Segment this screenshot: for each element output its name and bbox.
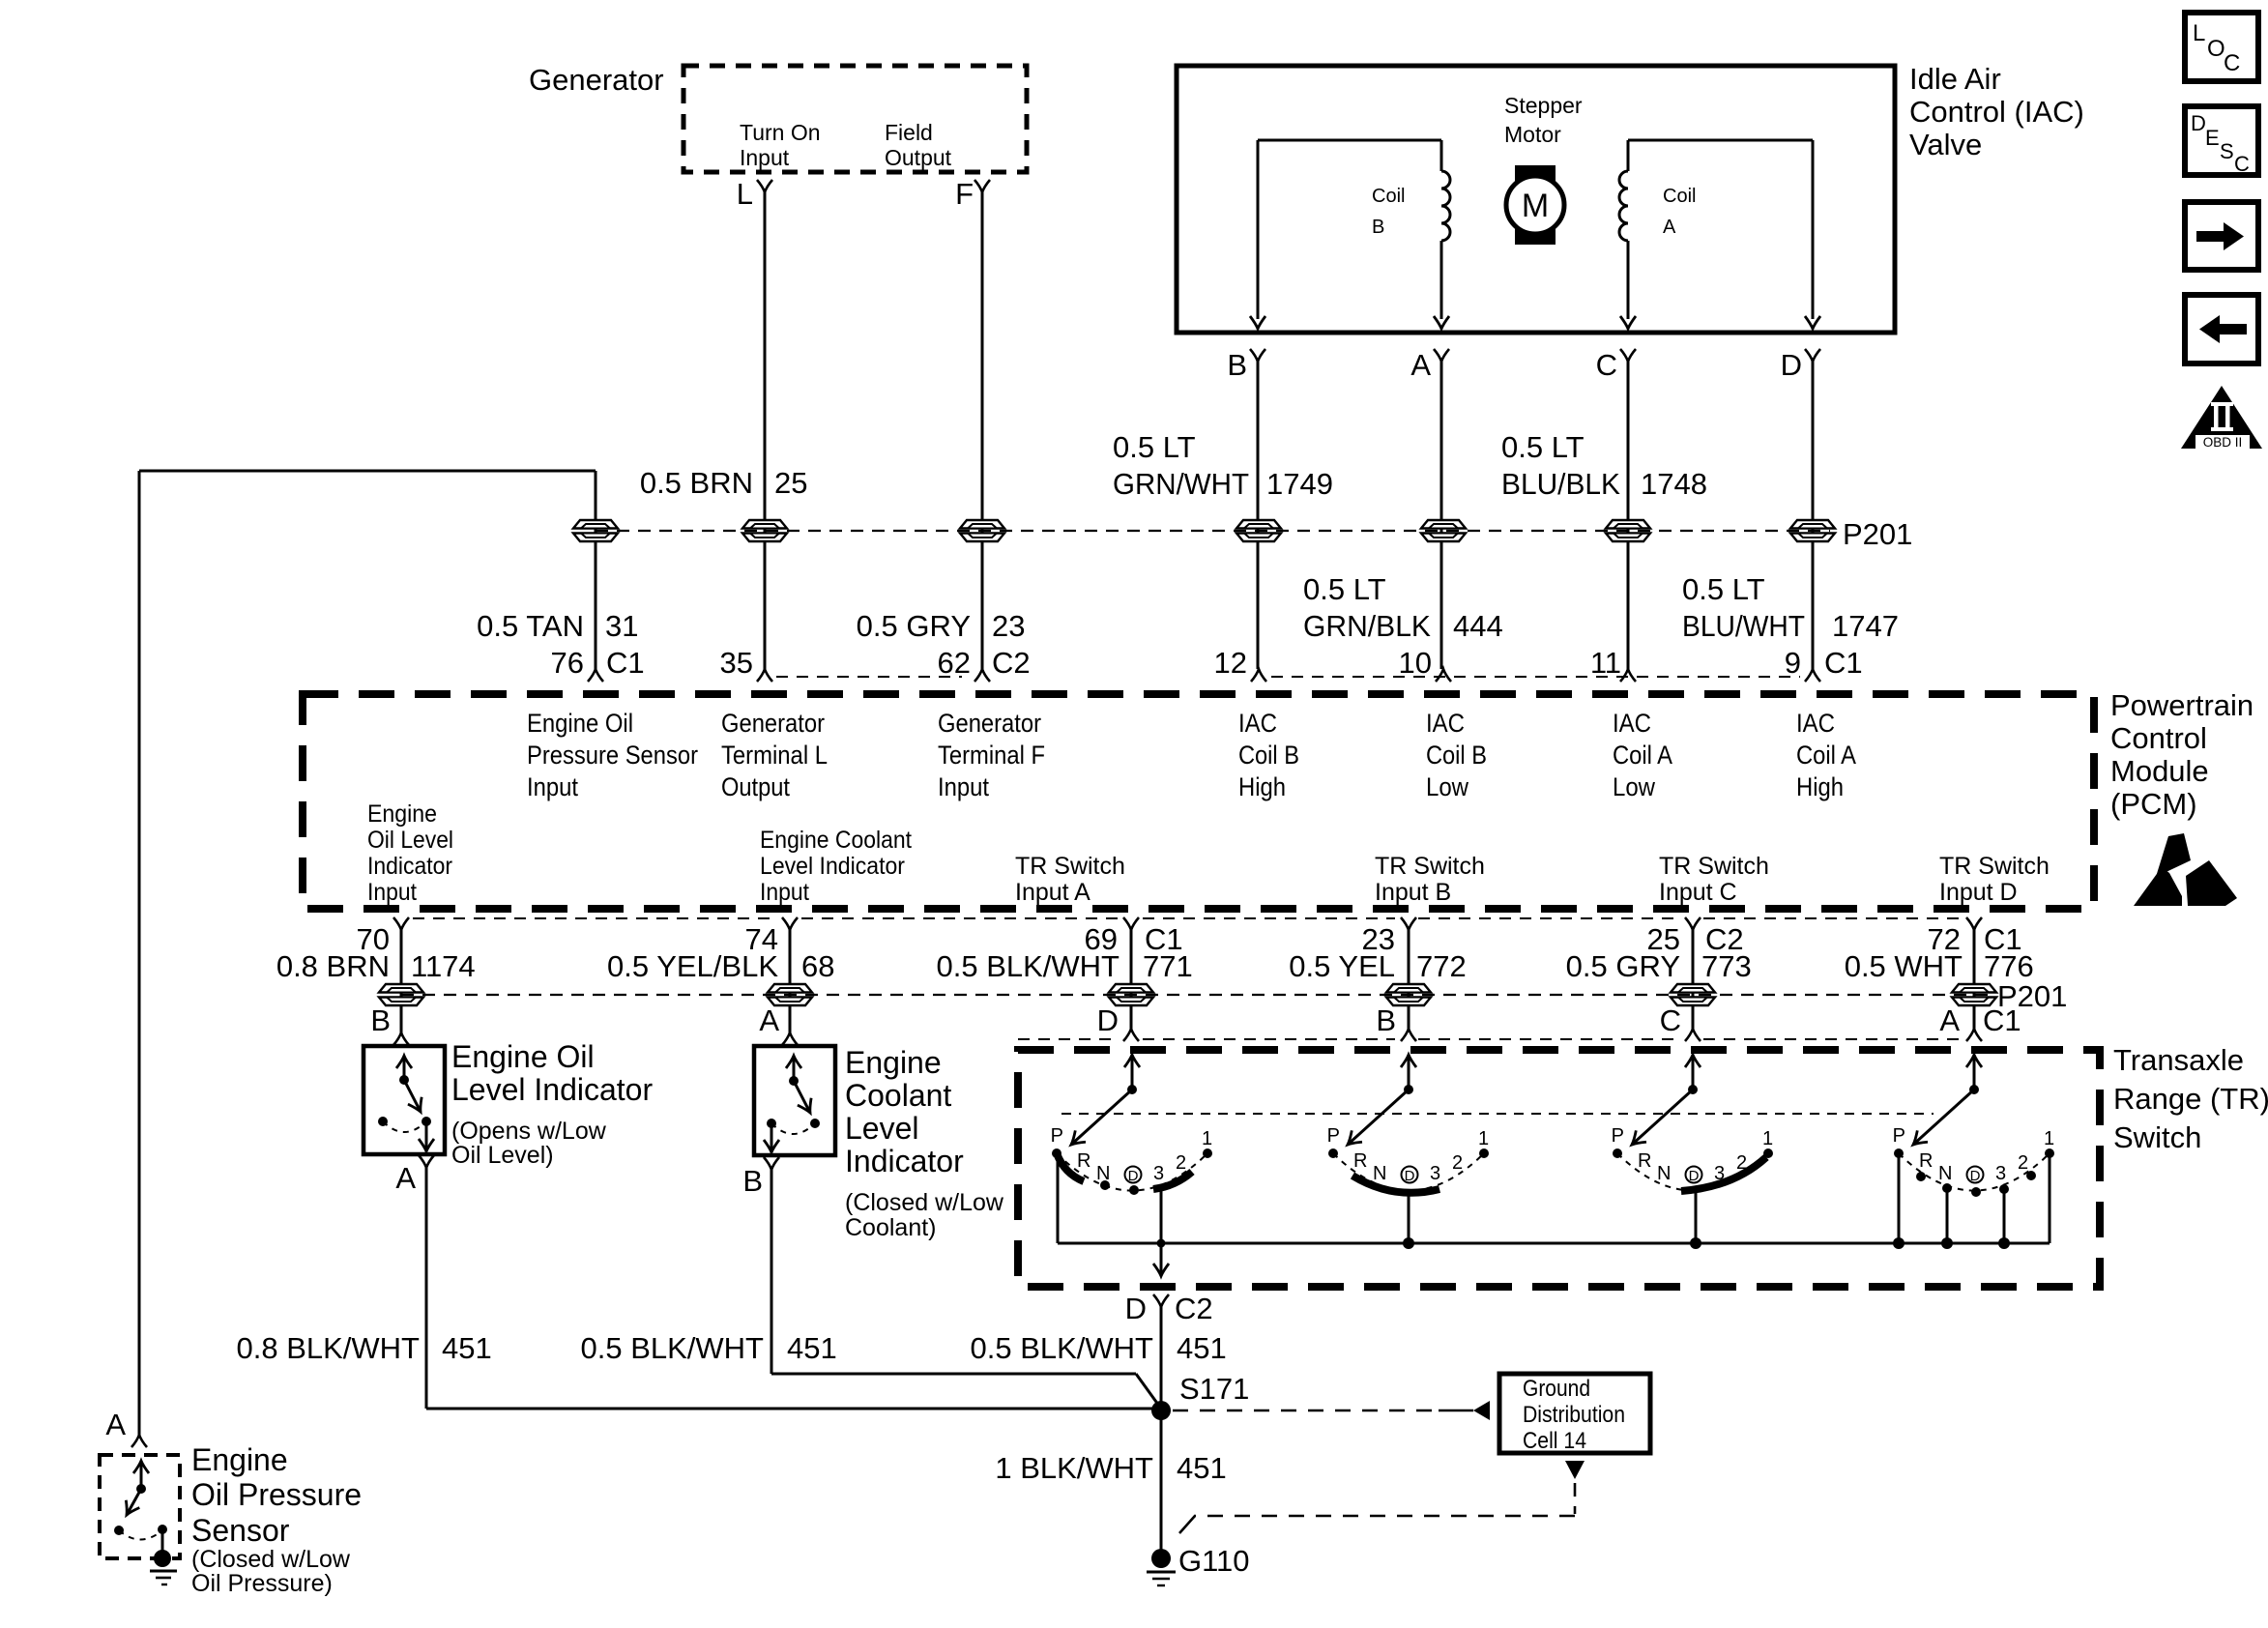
svg-text:2: 2 <box>1176 1152 1186 1174</box>
svg-text:(Closed w/Low: (Closed w/Low <box>191 1546 351 1573</box>
svg-text:GRN/WHT: GRN/WHT <box>1113 467 1249 501</box>
svg-text:M: M <box>1522 188 1549 224</box>
svg-text:0.5 WHT: 0.5 WHT <box>1845 949 1963 983</box>
svg-text:62: 62 <box>938 646 971 680</box>
svg-text:Input: Input <box>367 879 417 906</box>
svg-text:C: C <box>2234 152 2250 176</box>
svg-text:C1: C1 <box>1824 646 1863 680</box>
svg-text:Distribution: Distribution <box>1523 1402 1625 1428</box>
svg-text:31: 31 <box>605 609 638 643</box>
svg-text:L: L <box>2193 20 2205 46</box>
svg-text:0.5 LT: 0.5 LT <box>1113 430 1196 464</box>
svg-text:Ground: Ground <box>1523 1376 1590 1402</box>
svg-text:High: High <box>1238 772 1286 801</box>
svg-text:Oil Level): Oil Level) <box>451 1142 554 1169</box>
svg-text:TR Switch: TR Switch <box>1375 853 1485 880</box>
svg-text:C: C <box>1660 1003 1681 1037</box>
svg-text:1748: 1748 <box>1641 467 1707 501</box>
svg-text:2: 2 <box>2018 1152 2028 1174</box>
svg-text:1749: 1749 <box>1266 467 1333 501</box>
svg-text:C: C <box>1596 348 1617 382</box>
svg-text:Input: Input <box>938 772 989 801</box>
svg-text:0.5 TAN: 0.5 TAN <box>477 609 584 643</box>
svg-text:451: 451 <box>1177 1451 1227 1485</box>
svg-text:Coil B: Coil B <box>1238 741 1299 770</box>
svg-text:Coolant: Coolant <box>845 1078 951 1113</box>
svg-text:Low: Low <box>1613 772 1655 801</box>
svg-text:D: D <box>1970 1168 1981 1184</box>
svg-text:1: 1 <box>1202 1128 1212 1149</box>
svg-text:3: 3 <box>1430 1163 1440 1184</box>
svg-text:BLU/WHT: BLU/WHT <box>1682 609 1805 643</box>
svg-text:451: 451 <box>787 1331 837 1365</box>
svg-text:Coolant): Coolant) <box>845 1214 937 1241</box>
svg-text:1 BLK/WHT: 1 BLK/WHT <box>995 1451 1153 1485</box>
svg-text:GRN/BLK: GRN/BLK <box>1303 609 1431 643</box>
svg-text:S171: S171 <box>1179 1372 1249 1406</box>
svg-text:0.5 YEL: 0.5 YEL <box>1289 949 1395 983</box>
svg-text:D: D <box>1781 348 1802 382</box>
svg-text:G110: G110 <box>1178 1544 1250 1578</box>
svg-text:Indicator: Indicator <box>845 1144 964 1178</box>
svg-text:771: 771 <box>1143 949 1193 983</box>
svg-text:C1: C1 <box>1983 1003 2021 1037</box>
svg-text:68: 68 <box>801 949 834 983</box>
svg-text:25: 25 <box>774 466 807 500</box>
svg-text:Sensor: Sensor <box>191 1513 290 1548</box>
svg-text:Engine: Engine <box>191 1442 288 1477</box>
svg-text:Engine: Engine <box>367 800 437 828</box>
svg-text:Generator: Generator <box>721 709 825 738</box>
svg-text:Input: Input <box>740 145 790 170</box>
svg-text:0.5 GRY: 0.5 GRY <box>1566 949 1680 983</box>
svg-text:B: B <box>742 1164 763 1198</box>
svg-text:12: 12 <box>1214 646 1247 680</box>
svg-text:1: 1 <box>1478 1128 1489 1149</box>
svg-text:Low: Low <box>1426 772 1468 801</box>
svg-text:R: R <box>1353 1150 1367 1172</box>
svg-text:Range (TR): Range (TR) <box>2113 1082 2268 1116</box>
svg-text:Oil Pressure): Oil Pressure) <box>191 1570 333 1597</box>
svg-text:TR Switch: TR Switch <box>1659 853 1769 880</box>
svg-text:0.5 LT: 0.5 LT <box>1682 572 1765 606</box>
svg-text:R: R <box>1077 1150 1090 1172</box>
svg-text:B: B <box>370 1003 391 1037</box>
svg-text:Output: Output <box>721 772 790 801</box>
svg-text:Oil Level: Oil Level <box>367 827 453 854</box>
svg-text:Control: Control <box>2110 721 2207 755</box>
svg-text:IAC: IAC <box>1613 709 1651 738</box>
svg-text:R: R <box>1919 1150 1933 1172</box>
svg-text:High: High <box>1796 772 1844 801</box>
svg-text:Coil A: Coil A <box>1613 741 1672 770</box>
svg-text:E: E <box>2205 126 2220 150</box>
svg-text:773: 773 <box>1701 949 1752 983</box>
svg-text:F: F <box>955 177 974 211</box>
svg-text:Terminal L: Terminal L <box>721 741 828 770</box>
svg-text:Generator: Generator <box>529 63 664 97</box>
svg-text:Coil A: Coil A <box>1796 741 1856 770</box>
svg-text:Coil: Coil <box>1663 186 1696 207</box>
svg-text:776: 776 <box>1984 949 2034 983</box>
svg-text:1174: 1174 <box>411 949 476 983</box>
svg-text:(PCM): (PCM) <box>2110 787 2197 821</box>
svg-text:A: A <box>395 1161 416 1195</box>
svg-text:0.5 LT: 0.5 LT <box>1303 572 1386 606</box>
svg-text:Powertrain: Powertrain <box>2110 688 2253 722</box>
svg-text:1: 1 <box>2044 1128 2054 1149</box>
svg-text:Oil Pressure: Oil Pressure <box>191 1477 362 1512</box>
svg-text:Level: Level <box>845 1111 919 1146</box>
svg-text:Idle Air: Idle Air <box>1909 62 2001 96</box>
svg-text:Coil B: Coil B <box>1426 741 1487 770</box>
svg-text:P: P <box>1051 1125 1063 1147</box>
svg-text:D: D <box>1405 1168 1415 1184</box>
svg-text:Input: Input <box>527 772 578 801</box>
svg-text:D: D <box>2191 111 2206 135</box>
svg-text:P: P <box>1893 1125 1905 1147</box>
svg-text:B: B <box>1372 217 1384 238</box>
svg-text:Field: Field <box>885 120 933 145</box>
svg-text:IAC: IAC <box>1796 709 1835 738</box>
svg-text:BLU/BLK: BLU/BLK <box>1501 467 1620 501</box>
svg-text:0.5 BLK/WHT: 0.5 BLK/WHT <box>937 949 1120 983</box>
svg-text:C1: C1 <box>606 646 645 680</box>
svg-text:O: O <box>2207 36 2225 62</box>
svg-text:0.5 BLK/WHT: 0.5 BLK/WHT <box>581 1331 765 1365</box>
svg-text:9: 9 <box>1785 646 1801 680</box>
svg-text:0.5 BRN: 0.5 BRN <box>640 466 753 500</box>
svg-text:1747: 1747 <box>1832 609 1899 643</box>
svg-text:Cell 14: Cell 14 <box>1523 1428 1586 1454</box>
svg-text:D: D <box>1097 1003 1119 1037</box>
svg-text:P: P <box>1612 1125 1624 1147</box>
svg-text:C2: C2 <box>1175 1292 1213 1325</box>
svg-text:P201: P201 <box>1843 517 1912 551</box>
svg-text:A: A <box>1410 348 1431 382</box>
svg-text:B: B <box>1376 1003 1396 1037</box>
svg-text:D: D <box>1128 1168 1139 1184</box>
svg-text:Stepper: Stepper <box>1504 93 1583 118</box>
svg-text:Input: Input <box>760 879 809 906</box>
svg-text:Valve: Valve <box>1909 128 1982 161</box>
svg-text:Engine Oil: Engine Oil <box>451 1039 595 1074</box>
svg-text:A: A <box>1939 1003 1960 1037</box>
svg-text:Pressure Sensor: Pressure Sensor <box>527 741 698 770</box>
svg-text:D: D <box>1125 1292 1147 1325</box>
svg-text:444: 444 <box>1453 609 1503 643</box>
svg-text:TR Switch: TR Switch <box>1015 853 1125 880</box>
svg-text:Coil: Coil <box>1372 186 1405 207</box>
svg-text:Output: Output <box>885 145 952 170</box>
svg-text:Input B: Input B <box>1375 879 1451 906</box>
svg-text:Level Indicator: Level Indicator <box>760 853 905 880</box>
svg-text:772: 772 <box>1416 949 1467 983</box>
svg-text:1: 1 <box>1762 1128 1773 1149</box>
svg-text:35: 35 <box>720 646 753 680</box>
svg-text:76: 76 <box>551 646 584 680</box>
svg-text:(Closed w/Low: (Closed w/Low <box>845 1189 1004 1216</box>
svg-text:3: 3 <box>1153 1163 1164 1184</box>
svg-text:IAC: IAC <box>1426 709 1465 738</box>
svg-text:0.8 BLK/WHT: 0.8 BLK/WHT <box>237 1331 421 1365</box>
svg-text:10: 10 <box>1399 646 1432 680</box>
svg-text:Input A: Input A <box>1015 879 1090 906</box>
svg-text:A: A <box>1663 217 1676 238</box>
svg-text:Terminal F: Terminal F <box>938 741 1045 770</box>
svg-text:Indicator: Indicator <box>367 853 452 880</box>
svg-text:0.5 YEL/BLK: 0.5 YEL/BLK <box>607 949 778 983</box>
svg-text:Turn On: Turn On <box>740 120 821 145</box>
svg-text:R: R <box>1638 1150 1651 1172</box>
svg-text:0.5 GRY: 0.5 GRY <box>857 609 971 643</box>
svg-text:L: L <box>737 177 753 211</box>
svg-text:Engine Oil: Engine Oil <box>527 709 633 738</box>
svg-text:N: N <box>1373 1163 1386 1184</box>
svg-text:OBD II: OBD II <box>2203 435 2243 450</box>
svg-text:0.8 BRN: 0.8 BRN <box>276 949 390 983</box>
svg-text:A: A <box>105 1408 126 1441</box>
svg-text:23: 23 <box>992 609 1025 643</box>
svg-text:11: 11 <box>1590 646 1621 680</box>
svg-text:Module: Module <box>2110 754 2209 788</box>
svg-text:Switch: Switch <box>2113 1120 2201 1154</box>
svg-text:Motor: Motor <box>1504 122 1561 147</box>
svg-text:N: N <box>1657 1163 1671 1184</box>
svg-text:A: A <box>759 1003 779 1037</box>
svg-text:IAC: IAC <box>1238 709 1277 738</box>
svg-text:Input D: Input D <box>1939 879 2018 906</box>
svg-text:Engine Coolant: Engine Coolant <box>760 827 912 854</box>
svg-text:N: N <box>1938 1163 1952 1184</box>
svg-text:0.5 LT: 0.5 LT <box>1501 430 1585 464</box>
svg-text:S: S <box>2220 139 2234 163</box>
svg-text:Transaxle: Transaxle <box>2113 1043 2244 1077</box>
svg-text:451: 451 <box>1177 1331 1227 1365</box>
svg-text:Level Indicator: Level Indicator <box>451 1072 653 1107</box>
svg-text:C2: C2 <box>992 646 1031 680</box>
svg-text:Engine: Engine <box>845 1045 942 1080</box>
svg-text:TR Switch: TR Switch <box>1939 853 2050 880</box>
svg-text:Generator: Generator <box>938 709 1041 738</box>
svg-text:451: 451 <box>442 1331 492 1365</box>
svg-text:(Opens w/Low: (Opens w/Low <box>451 1118 607 1145</box>
svg-text:Input C: Input C <box>1659 879 1737 906</box>
svg-text:D: D <box>1689 1168 1700 1184</box>
svg-text:C: C <box>2224 50 2240 76</box>
svg-text:0.5 BLK/WHT: 0.5 BLK/WHT <box>971 1331 1154 1365</box>
svg-text:P: P <box>1327 1125 1340 1147</box>
svg-text:3: 3 <box>1995 1163 2006 1184</box>
svg-text:2: 2 <box>1452 1152 1463 1174</box>
svg-text:B: B <box>1227 348 1247 382</box>
svg-text:Control (IAC): Control (IAC) <box>1909 95 2084 129</box>
